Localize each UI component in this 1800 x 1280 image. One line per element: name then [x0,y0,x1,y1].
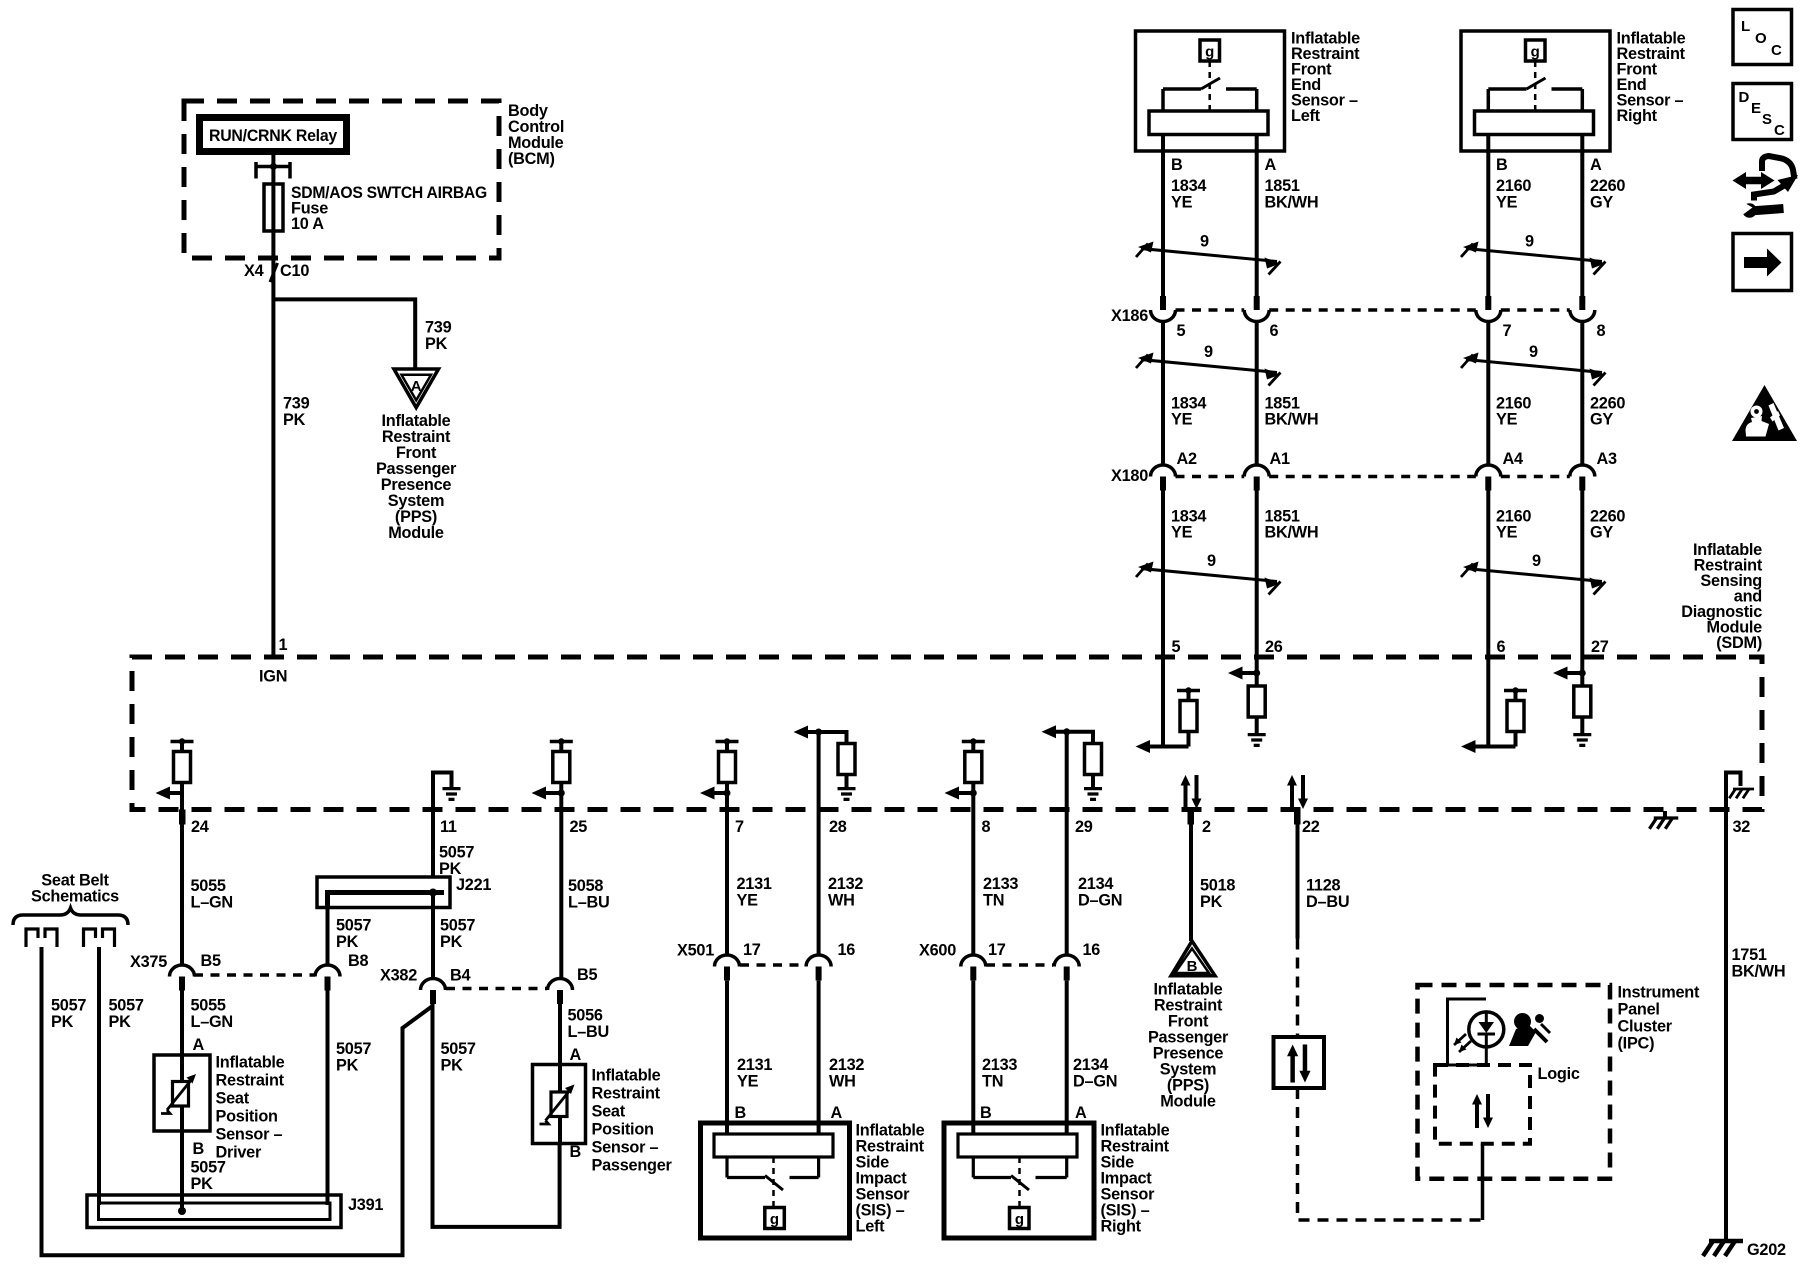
svg-text:WH: WH [828,892,855,910]
svg-text:2134: 2134 [1073,1056,1108,1074]
svg-text:25: 25 [570,818,588,836]
svg-text:PK: PK [283,411,306,429]
svg-text:1851: 1851 [1265,177,1300,195]
svg-text:A3: A3 [1597,450,1618,468]
svg-text:X600: X600 [919,942,956,960]
svg-text:16: 16 [1083,941,1101,959]
svg-text:A1: A1 [1270,450,1291,468]
svg-text:BK/WH: BK/WH [1265,524,1319,542]
svg-text:E: E [1751,100,1761,117]
svg-text:B: B [735,1104,747,1122]
svg-text:L–BU: L–BU [568,894,610,912]
svg-text:Inflatable: Inflatable [216,1054,285,1072]
svg-text:Right: Right [1101,1217,1142,1235]
svg-text:B: B [1496,156,1508,174]
svg-text:Instrument: Instrument [1618,984,1700,1002]
svg-text:YE: YE [1171,194,1193,212]
svg-text:Panel: Panel [1618,1001,1660,1019]
svg-text:B: B [1171,156,1183,174]
svg-text:A: A [570,1046,582,1064]
svg-text:J221: J221 [456,876,491,894]
svg-text:L: L [1741,18,1750,35]
svg-text:2260: 2260 [1590,177,1625,195]
svg-text:TN: TN [983,892,1004,910]
svg-text:9: 9 [1204,343,1213,361]
svg-text:Left: Left [856,1217,886,1235]
svg-text:YE: YE [737,892,759,910]
svg-text:1751: 1751 [1732,946,1767,964]
svg-text:YE: YE [737,1073,759,1091]
svg-text:7: 7 [735,818,744,836]
svg-text:Inflatable: Inflatable [592,1067,661,1085]
svg-text:2131: 2131 [737,875,772,893]
svg-text:9: 9 [1525,233,1534,251]
svg-text:YE: YE [1171,411,1193,429]
svg-text:g: g [1531,44,1540,61]
svg-text:PK: PK [336,933,359,951]
svg-text:27: 27 [1591,638,1609,656]
svg-text:5055: 5055 [191,997,226,1015]
svg-text:2160: 2160 [1496,177,1531,195]
svg-text:9: 9 [1529,343,1538,361]
svg-text:B5: B5 [201,952,222,970]
svg-text:PK: PK [51,1013,74,1031]
svg-text:A: A [193,1036,205,1054]
svg-text:TN: TN [982,1073,1003,1091]
svg-text:6: 6 [1497,638,1506,656]
svg-text:RUN/CRNK Relay: RUN/CRNK Relay [209,127,337,145]
svg-text:YE: YE [1171,524,1193,542]
svg-text:PK: PK [1200,893,1223,911]
svg-text:BK/WH: BK/WH [1265,411,1319,429]
svg-text:2131: 2131 [737,1056,772,1074]
svg-text:Passenger: Passenger [592,1157,673,1175]
svg-text:O: O [1755,30,1767,47]
svg-text:g: g [1015,1211,1024,1228]
svg-text:5057: 5057 [336,917,371,935]
svg-text:B: B [1187,958,1198,975]
svg-text:16: 16 [838,941,856,959]
svg-text:17: 17 [743,941,761,959]
svg-text:28: 28 [829,818,847,836]
svg-text:9: 9 [1200,233,1209,251]
svg-text:5058: 5058 [568,877,603,895]
svg-text:A: A [831,1104,843,1122]
svg-text:GY: GY [1590,411,1613,429]
svg-text:1834: 1834 [1171,177,1206,195]
svg-text:Module: Module [388,524,444,542]
svg-text:A: A [411,378,422,395]
svg-text:Logic: Logic [1538,1065,1580,1083]
svg-text:5: 5 [1177,322,1186,340]
svg-text:Position: Position [592,1121,654,1139]
svg-text:2: 2 [1202,818,1211,836]
svg-text:GY: GY [1590,194,1613,212]
svg-text:5057: 5057 [336,1040,371,1058]
svg-text:C: C [1771,42,1782,59]
svg-text:Seat: Seat [592,1103,626,1121]
svg-text:2133: 2133 [983,875,1018,893]
svg-text:5057: 5057 [441,1040,476,1058]
svg-text:9: 9 [1207,552,1216,570]
svg-text:Seat: Seat [216,1090,250,1108]
svg-text:L–BU: L–BU [568,1023,610,1041]
svg-text:X4: X4 [244,262,264,280]
svg-text:5057: 5057 [51,997,86,1015]
svg-text:g: g [770,1211,779,1228]
svg-text:D–BU: D–BU [1306,893,1349,911]
svg-text:Left: Left [1291,107,1321,125]
svg-text:Sensor –: Sensor – [216,1126,283,1144]
svg-text:Right: Right [1617,107,1658,125]
svg-text:C: C [1774,122,1785,139]
svg-text:24: 24 [191,818,209,836]
svg-text:Driver: Driver [216,1144,262,1162]
svg-text:B: B [570,1143,582,1161]
svg-text:739: 739 [425,319,452,337]
svg-text:A: A [1075,1104,1087,1122]
svg-text:29: 29 [1075,818,1093,836]
svg-text:9: 9 [1532,552,1541,570]
svg-text:X186: X186 [1111,307,1148,325]
svg-text:X375: X375 [130,953,167,971]
svg-text:8: 8 [1597,322,1606,340]
svg-text:5055: 5055 [191,877,226,895]
svg-text:X382: X382 [380,967,417,985]
svg-text:2132: 2132 [828,875,863,893]
svg-text:YE: YE [1496,524,1518,542]
svg-text:Module: Module [1160,1093,1216,1111]
svg-text:Schematics: Schematics [31,888,119,906]
svg-text:A: A [1590,156,1602,174]
svg-text:S: S [1762,111,1772,128]
svg-text:5018: 5018 [1200,877,1235,895]
svg-text:X180: X180 [1111,467,1148,485]
svg-text:A4: A4 [1503,450,1524,468]
svg-text:8: 8 [982,818,991,836]
svg-text:X501: X501 [677,942,714,960]
svg-text:17: 17 [988,941,1006,959]
svg-text:Position: Position [216,1108,278,1126]
svg-text:YE: YE [1496,411,1518,429]
svg-text:PK: PK [109,1013,132,1031]
svg-text:A2: A2 [1177,450,1198,468]
svg-text:PK: PK [191,1175,214,1193]
svg-text:g: g [1205,44,1214,61]
svg-text:D: D [1739,89,1750,106]
svg-text:PK: PK [441,1057,464,1075]
svg-text:5057: 5057 [439,844,474,862]
svg-text:C10: C10 [280,262,309,280]
svg-text:2133: 2133 [982,1056,1017,1074]
svg-text:PK: PK [425,335,448,353]
svg-text:Restraint: Restraint [216,1072,285,1090]
svg-text:BK/WH: BK/WH [1265,194,1319,212]
svg-text:5056: 5056 [568,1007,603,1025]
svg-text:B5: B5 [577,966,598,984]
svg-text:WH: WH [829,1073,856,1091]
svg-text:PK: PK [336,1057,359,1075]
svg-text:B8: B8 [348,952,369,970]
svg-text:G202: G202 [1747,1241,1786,1259]
svg-text:1128: 1128 [1306,877,1341,895]
svg-text:Cluster: Cluster [1618,1018,1673,1036]
svg-text:B: B [193,1140,205,1158]
svg-text:6: 6 [1270,322,1279,340]
svg-text:BK/WH: BK/WH [1732,963,1786,981]
svg-text:Sensor –: Sensor – [592,1139,659,1157]
svg-text:(IPC): (IPC) [1618,1035,1655,1053]
svg-text:PK: PK [440,933,463,951]
svg-text:L–GN: L–GN [191,894,233,912]
svg-text:11: 11 [440,818,457,836]
svg-text:5057: 5057 [109,997,144,1015]
svg-text:A: A [1265,156,1277,174]
svg-text:J391: J391 [348,1196,383,1214]
svg-text:YE: YE [1496,194,1518,212]
svg-text:(SDM): (SDM) [1716,634,1762,652]
svg-text:(BCM): (BCM) [508,150,555,168]
svg-text:L–GN: L–GN [191,1013,233,1031]
svg-text:B4: B4 [450,967,471,985]
svg-text:22: 22 [1302,818,1320,836]
svg-text:5: 5 [1172,638,1181,656]
svg-text:5057: 5057 [440,917,475,935]
svg-text:Restraint: Restraint [592,1085,661,1103]
svg-text:32: 32 [1733,818,1751,836]
svg-text:IGN: IGN [259,668,287,686]
svg-text:GY: GY [1590,524,1613,542]
svg-text:739: 739 [283,395,310,413]
svg-text:D–GN: D–GN [1078,892,1122,910]
svg-text:1: 1 [279,636,288,654]
svg-text:7: 7 [1503,322,1512,340]
svg-text:10 A: 10 A [291,215,324,233]
svg-text:2132: 2132 [829,1056,864,1074]
svg-text:2134: 2134 [1078,875,1113,893]
svg-text:26: 26 [1265,638,1283,656]
svg-text:B: B [980,1104,992,1122]
svg-text:D–GN: D–GN [1073,1073,1117,1091]
